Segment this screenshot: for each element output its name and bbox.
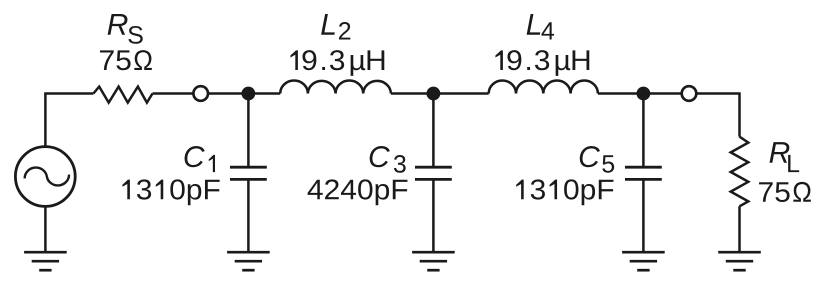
value 19.3 uH of L4 xyxy=(495,50,589,76)
label C5 letter xyxy=(580,146,600,167)
wire from node 3 to C5 xyxy=(642,94,645,168)
value 75 ohm of RL xyxy=(759,182,811,202)
ground of C3 xyxy=(412,252,455,270)
label L2 subscript 2 xyxy=(339,22,350,39)
value 1310 pF of C5 xyxy=(516,179,613,205)
wire from L4 through node 3 and output terminal to RL corner xyxy=(598,94,740,137)
label L4 subscript 4 xyxy=(541,22,554,39)
wire top-left corner from source to RS xyxy=(45,94,93,146)
wire from node 1 to C1 xyxy=(247,94,250,168)
label L4 letter xyxy=(527,14,541,35)
resistor RS zigzag xyxy=(93,87,152,103)
capacitor C1 plates xyxy=(230,167,267,179)
label C1 letter xyxy=(185,146,205,167)
label RS subscript S xyxy=(128,26,142,44)
capacitor C3 plates xyxy=(415,167,452,179)
label RL letter xyxy=(770,142,790,163)
wire from C3 to ground xyxy=(432,179,435,252)
label C3 subscript 3 xyxy=(394,155,406,173)
label L2 letter xyxy=(321,14,335,35)
inductor L4 xyxy=(489,80,598,93)
ground of ac source xyxy=(24,252,67,270)
value 1310 pF of C1 xyxy=(122,179,219,205)
inductor L2 xyxy=(280,80,391,93)
label C3 letter xyxy=(370,146,390,167)
ground of C5 xyxy=(622,252,665,270)
wire from RL to ground xyxy=(738,206,741,252)
wire from RS through input terminal and node 1 to L2 xyxy=(153,92,281,95)
resistor RL zigzag xyxy=(731,137,749,207)
wire from C5 to ground xyxy=(642,179,645,252)
label RS letter xyxy=(108,14,128,35)
node 1 junction dot xyxy=(242,87,256,101)
wire from C1 to ground xyxy=(247,179,250,252)
label C1 subscript 1 xyxy=(209,155,215,172)
label RL subscript L xyxy=(788,155,799,172)
ground of RL xyxy=(718,252,761,270)
wire from node 2 to C3 xyxy=(432,94,435,168)
value 19.3 uH of L2 xyxy=(290,50,384,76)
value 4240 pF of C3 xyxy=(308,179,408,205)
wire from L2 through node 2 to L4 xyxy=(391,92,489,95)
ac source circle xyxy=(15,147,75,207)
value 75 ohm of RS xyxy=(100,50,152,70)
output terminal (open circle) xyxy=(682,86,697,101)
wire from ac source to ground xyxy=(44,206,47,252)
node 2 junction dot xyxy=(427,87,441,101)
ac source sine wave xyxy=(24,165,70,189)
node 3 junction dot xyxy=(637,87,651,101)
label C5 subscript 5 xyxy=(602,155,614,172)
ground of C1 xyxy=(227,252,270,270)
capacitor C5 plates xyxy=(625,167,662,179)
input terminal (open circle) xyxy=(193,86,208,101)
